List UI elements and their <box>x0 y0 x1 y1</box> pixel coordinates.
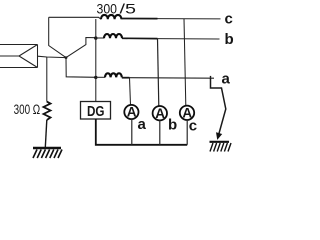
junction dot phase a / neutral <box>94 76 97 79</box>
svg-text:A: A <box>155 106 165 121</box>
relay DG box <box>81 102 111 120</box>
svg-text:DG: DG <box>87 104 105 120</box>
svg-text:/5: /5 <box>120 1 137 16</box>
fault tee tick on phase a <box>210 76 212 78</box>
svg-text:300 Ω: 300 Ω <box>14 102 41 117</box>
svg-text:b: b <box>168 117 177 134</box>
svg-text:a: a <box>222 71 231 88</box>
wire: neutral from coils down to DG <box>95 19 97 102</box>
CT coil phase c <box>101 15 121 19</box>
wire: ammeter a to bus <box>131 119 133 145</box>
ground (left, hatched) <box>33 148 62 158</box>
wire: phase c to the right <box>121 18 157 20</box>
wire: ammeter c to bus <box>186 120 188 145</box>
wire: phase c top run <box>49 17 101 19</box>
wire: grounding branch down from tee <box>46 57 48 102</box>
CT coil phase a <box>105 73 122 77</box>
ground (right, hatched, fault point) <box>210 142 232 152</box>
svg-text:c: c <box>225 11 233 28</box>
wire: phase b riser and diagonal to node J <box>66 38 96 58</box>
svg-text:c: c <box>189 118 197 135</box>
wire: middle conductor from arrow to node J <box>38 56 67 57</box>
svg-text:A: A <box>127 105 137 120</box>
wire: phase a drop from node J <box>66 58 96 78</box>
wire: ground fault branch on phase a <box>211 78 226 137</box>
wire: phase c riser and diagonal to node J <box>49 17 66 57</box>
fault arrowhead <box>217 133 222 139</box>
wire: phase a to the right <box>122 77 130 79</box>
svg-text:b: b <box>225 31 234 48</box>
junction dot phase b / neutral <box>94 36 97 39</box>
resistor 300 ohm zigzag <box>44 102 51 120</box>
wire: resistor to ground <box>45 120 47 148</box>
svg-text:300: 300 <box>97 1 118 16</box>
wire: phase b to the right <box>122 37 158 39</box>
ammeter A (phase b) <box>153 106 167 121</box>
wire: ammeter a drop <box>130 78 131 105</box>
CT coil phase b <box>104 34 122 38</box>
wire: ammeter b drop <box>158 39 159 107</box>
wire: ammeter c drop <box>184 19 186 106</box>
svg-text:a: a <box>138 116 147 133</box>
ammeter A (phase a) <box>124 105 138 120</box>
ammeter A (phase c) <box>180 106 194 121</box>
wire: ammeter b to bus <box>159 120 161 145</box>
node J (phase split point) <box>65 56 68 59</box>
wire: DG to common return bus <box>96 119 187 145</box>
three-phase source arrow symbol <box>0 45 38 68</box>
